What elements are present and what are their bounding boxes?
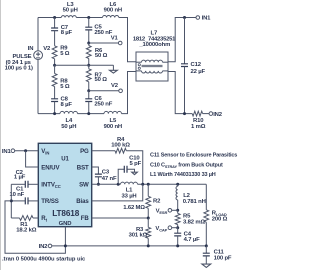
- svg-text:BST: BST: [77, 164, 89, 171]
- resistor R6: [86, 43, 107, 65]
- wire: bottom rail: [38, 113, 60, 115]
- wire: choke to IN1: [168, 18, 196, 62]
- svg-text:GND: GND: [59, 221, 72, 227]
- svg-text:U1: U1: [61, 156, 69, 162]
- node junction bottom rail / C8: [53, 112, 56, 115]
- wire: left grey page edge: [0, 0, 2, 270]
- inductor L5: [104, 111, 122, 130]
- svg-text:V2: V2: [111, 83, 119, 89]
- svg-text:L7: L7: [151, 30, 158, 36]
- svg-text:PULSE: PULSE: [13, 54, 32, 60]
- svg-text:18.2 kΩ: 18.2 kΩ: [16, 227, 36, 233]
- wire: left bus to bottom rail: [5, 201, 65, 253]
- wire: choke to IN2: [168, 72, 192, 114]
- svg-text:_10000ohm: _10000ohm: [138, 42, 170, 48]
- wire: bottom ground rail: [52, 245, 207, 247]
- svg-text:5 Ω: 5 Ω: [60, 51, 70, 57]
- svg-text:L1 Würth 744031330 33 µH: L1 Würth 744031330 33 µH: [150, 172, 216, 178]
- svg-text:250 nF: 250 nF: [94, 101, 112, 107]
- svg-text:IN2: IN2: [213, 112, 223, 118]
- svg-text:8 µF: 8 µF: [61, 30, 73, 36]
- svg-text:8 µF: 8 µF: [61, 102, 73, 108]
- capacitor C11: [203, 246, 232, 264]
- svg-text:1 µF: 1 µF: [14, 175, 26, 181]
- svg-text:5 Ω: 5 Ω: [60, 84, 70, 90]
- node IN2 (top): [209, 112, 223, 118]
- wire: EN/UV tie: [26, 151, 39, 167]
- capacitor C8: [51, 96, 72, 113]
- svg-text:5 pF: 5 pF: [130, 161, 142, 167]
- inductor L2: [176, 184, 206, 210]
- label: PULSE parameters of V2: [5, 54, 33, 72]
- node IN2 (bottom): [39, 244, 52, 250]
- svg-text:VESR: VESR: [156, 208, 168, 215]
- wire: C2/C1/R1 left bus: [10, 184, 12, 218]
- wire: top rail: [38, 17, 61, 19]
- svg-text:22 µF: 22 µF: [191, 69, 206, 75]
- node junction C3/SW: [97, 183, 100, 186]
- node junction top rail / C7: [53, 16, 56, 19]
- op-amp/IC U1 LT8618: [38, 143, 91, 227]
- node junction C12 top: [183, 16, 186, 19]
- node junction FB/divider: [147, 217, 150, 220]
- wire: SW line: [92, 183, 121, 185]
- svg-text:900 nH: 900 nH: [104, 124, 122, 130]
- resistor R4: [92, 137, 131, 153]
- inductor L6: [103, 2, 123, 18]
- wire: FB line: [92, 217, 149, 219]
- resistor R10: [191, 111, 209, 130]
- node junction top rail / C5: [87, 16, 90, 19]
- svg-text:PG: PG: [80, 148, 89, 155]
- inductor L1: [121, 182, 138, 199]
- svg-text:IN1: IN1: [202, 16, 212, 22]
- svg-text:C12: C12: [191, 62, 202, 68]
- svg-text:50 Ω: 50 Ω: [95, 53, 108, 59]
- svg-text:.tran 0 5000u 4900u startup ui: .tran 0 5000u 4900u startup uic: [2, 257, 86, 263]
- node V2: [87, 83, 122, 93]
- node junction C10/SW: [117, 183, 120, 186]
- resistor RLOAD: [204, 184, 228, 246]
- resistor R9: [52, 45, 70, 65]
- svg-text:4.7 µF: 4.7 µF: [184, 237, 200, 243]
- svg-text:V1: V1: [111, 35, 119, 41]
- resistor R5: [175, 210, 205, 227]
- capacitor C3: [92, 167, 117, 184]
- node V1: [87, 35, 122, 44]
- svg-text:100 kΩ: 100 kΩ: [111, 143, 130, 149]
- svg-text:3.82 mΩ: 3.82 mΩ: [183, 219, 205, 225]
- node junction R3/rail: [147, 244, 150, 247]
- svg-text:V2: V2: [43, 46, 51, 52]
- svg-text:VCAP: VCAP: [155, 226, 167, 233]
- svg-text:200 Ω: 200 Ω: [212, 217, 228, 223]
- svg-text:1.62 MΩ: 1.62 MΩ: [123, 205, 145, 211]
- svg-text:100 pF: 100 pF: [214, 255, 232, 261]
- svg-text:33 µH: 33 µH: [121, 193, 136, 199]
- svg-text:IN: IN: [28, 46, 34, 52]
- svg-text:1 mΩ: 1 mΩ: [191, 124, 206, 130]
- node junction GND/rail: [64, 244, 67, 247]
- capacitor C1: [9, 187, 38, 205]
- svg-text:C10 CSTRAY from Buck Output: C10 CSTRAY from Buck Output: [150, 163, 223, 169]
- wire: midpoint bus to ground: [55, 64, 114, 66]
- ground (C10): [132, 172, 138, 174]
- inductor L4: [60, 111, 78, 130]
- svg-text:R2: R2: [153, 199, 161, 205]
- node IN1 (bottom): [2, 149, 15, 155]
- node junction R6/R7 midpoint: [87, 64, 90, 67]
- ground (C11): [202, 264, 211, 267]
- capacitor C5: [85, 18, 112, 44]
- capacitor C12: [181, 18, 205, 114]
- node IN1 (top): [196, 16, 211, 22]
- node junction C4/rail: [176, 244, 179, 247]
- node junction R2/VOUT: [147, 183, 150, 186]
- node junction left bus: [10, 199, 13, 202]
- wire: IN1 to VIN: [15, 150, 39, 152]
- node VESR: [156, 208, 180, 215]
- node junction C12 bottom: [183, 112, 186, 115]
- resistor R2: [123, 184, 161, 218]
- svg-text:50 Ω: 50 Ω: [95, 77, 108, 83]
- resistor R7: [86, 65, 107, 91]
- inductor L3: [61, 2, 77, 18]
- node junction L2 branch/VOUT: [176, 183, 179, 186]
- resistor R1: [11, 216, 38, 234]
- voltage source V2: [28, 18, 51, 114]
- svg-text:TR/SS: TR/SS: [41, 198, 58, 205]
- svg-text:Bias: Bias: [76, 198, 89, 205]
- svg-text:50 µH: 50 µH: [61, 124, 76, 130]
- resistor R8: [52, 65, 70, 99]
- svg-text:50 µH: 50 µH: [63, 8, 78, 14]
- wire: VOUT rail: [138, 183, 207, 185]
- svg-text:C11 Sensor to Enclosure Parasi: C11 Sensor to Enclosure Parasitics: [150, 153, 237, 159]
- node junction bottom rail / C6: [87, 112, 90, 115]
- resistor R3: [129, 218, 151, 246]
- wire: R4 to VOUT rail: [126, 151, 142, 185]
- svg-text:L2: L2: [183, 193, 190, 199]
- node junction R9/R8 midpoint: [53, 64, 56, 67]
- svg-text:IN1: IN1: [2, 149, 12, 155]
- svg-text:47 nF: 47 nF: [102, 176, 117, 182]
- svg-text:900 nH: 900 nH: [104, 8, 122, 14]
- capacitor C6: [85, 91, 112, 114]
- ground (midpoint): [110, 65, 118, 73]
- capacitor C7: [51, 18, 72, 46]
- svg-text:FB: FB: [81, 215, 90, 222]
- svg-text:C3: C3: [102, 169, 110, 175]
- capacitor C10: [118, 156, 141, 185]
- svg-text:IN2: IN2: [39, 244, 49, 250]
- svg-text:LT8618: LT8618: [52, 209, 80, 218]
- svg-text:EN/UV: EN/UV: [41, 164, 60, 171]
- node VCAP: [155, 226, 179, 233]
- node junction R4/Bias/VOUT: [141, 183, 144, 186]
- common-mode choke L7: [133, 30, 176, 81]
- svg-text:0.781 nH: 0.781 nH: [183, 199, 206, 205]
- capacitor C2: [11, 170, 38, 188]
- svg-text:100 µs 0 1): 100 µs 0 1): [5, 65, 33, 71]
- wire: GND pin drop: [64, 227, 66, 246]
- node junction VIN/EN: [24, 149, 27, 152]
- wire: Bias to VOUT: [92, 184, 143, 201]
- capacitor C4: [174, 228, 200, 246]
- label: annotation block: [150, 153, 237, 178]
- node junction C11/rail: [205, 244, 208, 247]
- svg-text:SW: SW: [79, 182, 89, 189]
- svg-text:301 kΩ: 301 kΩ: [129, 233, 148, 239]
